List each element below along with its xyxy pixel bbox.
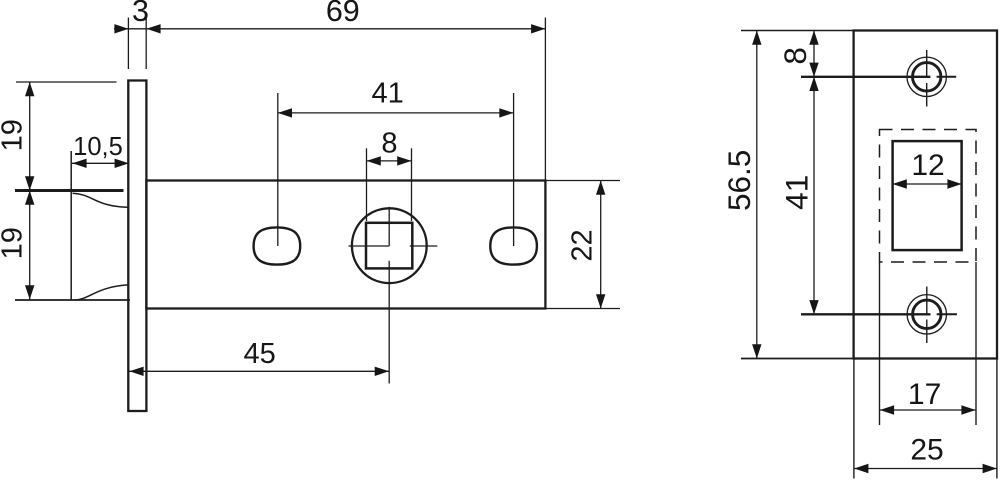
svg-text:19: 19 bbox=[0, 119, 28, 151]
dimension 12 (opening width) bbox=[893, 149, 962, 189]
spindle crosshair horizontal bbox=[349, 245, 390, 247]
dimension 56.5 (plate height) bbox=[721, 31, 762, 359]
spindle square hole bbox=[366, 223, 412, 269]
extension line top for 19 bbox=[16, 81, 117, 83]
svg-text:8: 8 bbox=[381, 127, 397, 159]
svg-text:41: 41 bbox=[779, 175, 815, 210]
dimension 19 bottom bbox=[0, 191, 34, 300]
svg-text:10,5: 10,5 bbox=[73, 133, 123, 161]
latch bolt top bevel curve bbox=[73, 193, 129, 207]
dashed cutout rectangle bbox=[880, 130, 977, 263]
svg-text:19: 19 bbox=[0, 227, 28, 259]
lip fold line right / 17 extension bbox=[975, 262, 977, 425]
svg-text:3: 3 bbox=[132, 0, 149, 28]
svg-text:25: 25 bbox=[910, 433, 943, 466]
spindle circle bbox=[352, 208, 427, 283]
dimension 41 (plate hole spacing) bbox=[779, 77, 819, 314]
latch bolt left edge bbox=[70, 151, 72, 300]
svg-text:56.5: 56.5 bbox=[721, 150, 757, 211]
extension/centre line left hole bbox=[277, 93, 279, 246]
dimension 10,5 bbox=[72, 133, 129, 168]
spindle crosshair vertical bbox=[388, 207, 390, 246]
lip fold line left / 17 extension bbox=[879, 262, 881, 425]
svg-text:45: 45 bbox=[243, 338, 275, 370]
left mounting hole (oval) bbox=[254, 227, 301, 264]
upper screw hole centerline (thick) bbox=[801, 76, 930, 78]
dimension 41 (hole spacing, side view) bbox=[278, 77, 514, 117]
svg-text:17: 17 bbox=[908, 378, 941, 411]
upper screw hole bbox=[907, 50, 946, 107]
latch bolt top edge (thick) bbox=[15, 189, 124, 192]
extension/centre line right hole bbox=[513, 93, 515, 246]
lower screw hole centerline (thick) bbox=[801, 313, 931, 315]
dimension 19 top bbox=[0, 82, 34, 300]
dimension 25 (plate width) bbox=[854, 359, 997, 479]
dimension 3 (faceplate thickness) bbox=[114, 0, 545, 69]
dimension 8 (plate top to hole) bbox=[777, 31, 819, 315]
svg-text:41: 41 bbox=[371, 77, 403, 109]
svg-text:8: 8 bbox=[777, 47, 813, 65]
dimension 8 (spindle square, side view) bbox=[367, 127, 412, 221]
latch bolt bottom edge bbox=[15, 299, 130, 301]
latch bolt bottom bevel curve bbox=[75, 285, 129, 300]
svg-text:69: 69 bbox=[326, 0, 360, 28]
svg-text:22: 22 bbox=[567, 229, 599, 261]
latch body (side view) bbox=[146, 181, 545, 309]
dimension 45 (backset) bbox=[129, 338, 389, 376]
right mounting hole (oval) bbox=[490, 227, 537, 264]
faceplate (side view) bbox=[128, 81, 146, 412]
dimension 17 bbox=[880, 378, 977, 415]
dimension 69 (body length) bbox=[326, 0, 546, 181]
strike plate outline (front view) bbox=[854, 31, 997, 359]
latch opening rectangle bbox=[893, 141, 962, 250]
plate bottom extension line bbox=[741, 358, 854, 360]
svg-text:12: 12 bbox=[911, 149, 944, 182]
lower screw hole bbox=[907, 287, 946, 344]
dimension 22 (body height) bbox=[545, 181, 620, 309]
plate top extension line bbox=[741, 30, 854, 32]
